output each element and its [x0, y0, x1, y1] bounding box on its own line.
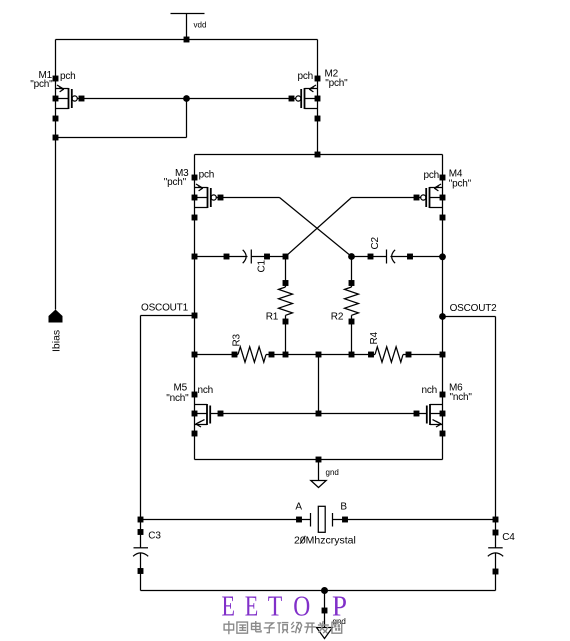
- node: gnd pin square (inner): [316, 457, 322, 463]
- M4 labels: [423, 169, 471, 190]
- svg-text:E: E: [245, 591, 258, 623]
- svg-text:R3: R3: [231, 333, 242, 346]
- svg-text:nch: nch: [198, 385, 214, 396]
- wire: left inner vertical: [194, 155, 196, 460]
- svg-text:R1: R1: [266, 312, 279, 323]
- svg-text:nch: nch: [421, 385, 437, 396]
- watermark glyph ding: [277, 623, 288, 634]
- watermark glyph zi: [264, 623, 275, 633]
- capacitor C4: [488, 530, 503, 591]
- node: bottom rail junction dot: [321, 587, 328, 594]
- svg-text:R4: R4: [369, 331, 380, 344]
- wire: M3 gate cross-coupling: [221, 198, 352, 257]
- svg-text:O: O: [293, 591, 310, 623]
- wire: feedback horizontal to M1 drain: [56, 137, 187, 139]
- node: gate rail center square: [316, 411, 322, 417]
- capacitor C1: [195, 250, 286, 264]
- watermark glyph dian: [252, 621, 262, 632]
- watermark glyph zhong: [224, 621, 234, 634]
- watermark glyph wang: [332, 622, 342, 633]
- EETOP logo: [222, 591, 348, 623]
- resistor R2: [345, 257, 359, 355]
- svg-text:20Mhzcrystal: 20Mhzcrystal: [294, 535, 356, 547]
- node: vdd pin square: [184, 37, 190, 43]
- svg-text:vdd: vdd: [194, 21, 207, 30]
- M1 labels: [30, 70, 75, 90]
- wire: M4 gate cross-coupling: [286, 198, 417, 257]
- wire: gate-drain feedback vertical: [186, 99, 188, 138]
- svg-text:C3: C3: [148, 531, 161, 542]
- watermark glyph guo: [237, 622, 248, 633]
- transistor M1 (pch): [53, 76, 85, 122]
- watermark Chinese caption (drawn glyphs): [224, 621, 342, 634]
- watermark glyph fa: [318, 621, 329, 633]
- svg-text:pch: pch: [199, 170, 215, 181]
- capacitor C3: [133, 529, 148, 590]
- wire: mid rail right segment: [403, 354, 443, 356]
- M5 labels: [166, 383, 213, 405]
- wire: left outer vertical: [140, 316, 142, 548]
- node: C2 right junction dot: [439, 253, 446, 260]
- node: C1 left junction square: [192, 254, 198, 260]
- wire: vdd rail: [56, 39, 318, 41]
- svg-text:C1: C1: [257, 259, 268, 272]
- svg-text:A: A: [295, 502, 302, 513]
- svg-text:gnd: gnd: [326, 468, 339, 477]
- svg-text:C4: C4: [502, 532, 515, 543]
- svg-text:"nch": "nch": [166, 393, 189, 404]
- node: M1 drain junction square: [53, 135, 59, 141]
- vdd supply symbol: [171, 14, 205, 40]
- wire: mid rail center segment: [266, 354, 375, 356]
- transistor M3 (pch): [192, 175, 224, 221]
- svg-text:OSCOUT2: OSCOUT2: [450, 303, 498, 314]
- wire: right outer vertical: [495, 317, 497, 548]
- wire: right inner vertical: [442, 155, 444, 460]
- svg-text:"pch": "pch": [325, 78, 348, 89]
- M6 labels: [421, 383, 472, 404]
- wire: bottom rail: [141, 590, 496, 592]
- node: R2 top junction dot: [348, 253, 355, 260]
- wire: crystal row left: [141, 519, 311, 521]
- wire: OSCOUT2 stub: [443, 316, 496, 318]
- svg-text:E: E: [222, 591, 236, 623]
- svg-text:pch: pch: [60, 71, 76, 82]
- svg-text:pch: pch: [423, 170, 439, 181]
- wire: inner top rail: [195, 154, 443, 156]
- wire: crystal row right: [333, 519, 496, 521]
- resistor R1: [279, 257, 293, 355]
- node: crystal row right junction square: [493, 517, 499, 523]
- node: crystal row left junction square: [138, 517, 144, 523]
- transistor M2 (pch, mirrored): [289, 76, 321, 122]
- svg-text:T: T: [268, 591, 283, 623]
- svg-text:B: B: [340, 502, 347, 513]
- resistor R3: [232, 347, 275, 362]
- svg-text:R2: R2: [331, 312, 344, 323]
- svg-text:"pch": "pch": [30, 79, 53, 90]
- M2 labels: [297, 69, 348, 90]
- node: M2 drain rail square: [315, 152, 321, 158]
- svg-text:Ibias: Ibias: [51, 330, 63, 352]
- node: mid rail junction squares: [192, 352, 446, 358]
- wire: OSCOUT1 stub: [141, 315, 195, 317]
- resistor R4: [368, 347, 411, 362]
- pin Ibias: [49, 310, 63, 323]
- node: OSCOUT1 junction square: [192, 313, 198, 319]
- wire: bias tap vertical: [318, 355, 320, 414]
- crystal terminal labels: [295, 502, 347, 513]
- svg-text:M5: M5: [174, 383, 188, 394]
- node: gate junction dot: [183, 95, 190, 102]
- transistor M5 (nch): [192, 392, 224, 437]
- wire: M2 supply drop: [317, 40, 319, 155]
- transistor M6 (nch, mirrored): [414, 392, 446, 437]
- svg-text:C2: C2: [370, 236, 381, 249]
- wire: mid rail left segment: [195, 354, 239, 356]
- M3 labels: [164, 168, 214, 188]
- wire: inner bottom rail: [195, 459, 443, 461]
- node: OSCOUT2 junction dot: [439, 313, 446, 320]
- ground symbol (bottom): [317, 591, 333, 639]
- ground symbol (inner): [311, 460, 326, 488]
- svg-text:pch: pch: [297, 71, 313, 82]
- transistor M4 (pch, mirrored): [414, 175, 446, 221]
- svg-text:OSCOUT1: OSCOUT1: [141, 303, 189, 314]
- svg-text:"pch": "pch": [449, 179, 472, 190]
- wire: M1-M2 common gate wire: [82, 98, 292, 100]
- node: R1 top junction square: [283, 254, 289, 260]
- watermark glyph kai: [304, 623, 315, 633]
- svg-text:"pch": "pch": [164, 177, 187, 188]
- wire: M5-M6 gate rail: [221, 413, 417, 415]
- watermark glyph ji: [291, 622, 301, 633]
- capacitor C2: [352, 250, 443, 264]
- crystal 20Mhz: [296, 506, 348, 532]
- svg-text:P: P: [332, 591, 347, 623]
- wire: left main vertical vdd to Ibias: [55, 40, 57, 310]
- svg-text:"nch": "nch": [450, 392, 473, 403]
